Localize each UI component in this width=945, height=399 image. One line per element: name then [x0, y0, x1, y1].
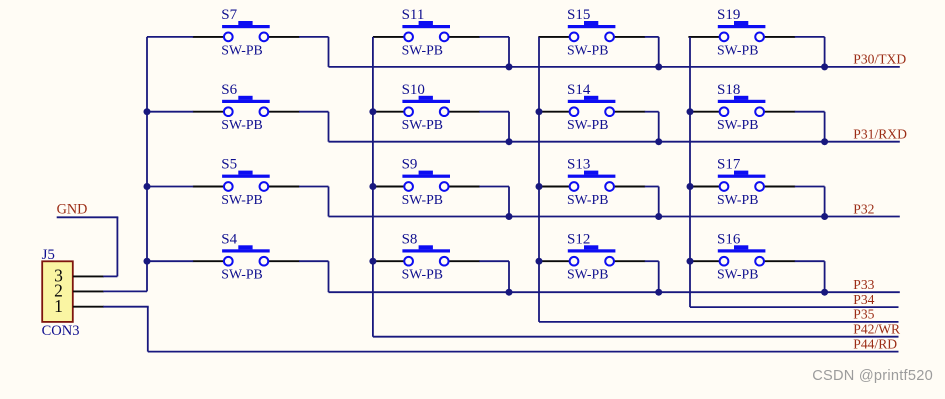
svg-text:S10: S10: [402, 82, 425, 98]
S5 actuator bar: [222, 175, 270, 178]
switch S9 (push button SW-PB): [373, 157, 480, 207]
wire S17 pin 2 to drop corner: [795, 186, 825, 188]
switch S7 (push button SW-PB): [193, 7, 300, 57]
S5 right contact: [260, 182, 269, 191]
S19 pin 2: [764, 36, 796, 38]
wire GND stub under label: [57, 216, 119, 218]
S12 pin 1: [538, 260, 570, 262]
S17 pin 1: [688, 186, 720, 188]
S11 pin 2: [448, 36, 480, 38]
svg-text:P32: P32: [853, 201, 874, 216]
switch S15 (push button SW-PB): [538, 7, 645, 57]
S5 left contact: [224, 182, 233, 191]
S12 left contact: [570, 257, 579, 266]
wire J5 pin 3 to GND corner: [103, 275, 117, 277]
svg-text:SW-PB: SW-PB: [717, 192, 758, 207]
wire S9 pin 2 to drop corner: [479, 186, 509, 188]
junction column 4 bus / row 2: [687, 108, 694, 115]
wire row 4 output net line (P33): [329, 291, 900, 293]
junction row 4 net line / S12 drop: [655, 289, 662, 296]
wire S17 drop down to row 3 net line: [824, 187, 826, 217]
switch S5 (push button SW-PB): [193, 157, 300, 207]
svg-text:CON3: CON3: [42, 323, 80, 339]
svg-text:S15: S15: [567, 7, 590, 23]
S14 right contact: [605, 107, 614, 116]
svg-text:S14: S14: [567, 82, 591, 98]
wire S8 pin 2 to drop corner: [479, 260, 509, 262]
wire S19 drop down to row 1 net line: [824, 37, 826, 67]
S9 pin 2: [448, 186, 480, 188]
wire row 4 from bus to S4 pin 1: [147, 260, 193, 262]
junction row 2 net line / S14 drop: [655, 138, 662, 145]
S5 pin 2: [268, 186, 300, 188]
svg-text:S16: S16: [717, 231, 741, 247]
junction row 3 net line / S13 drop: [655, 213, 662, 220]
wire S11 drop down to row 1 net line: [508, 37, 510, 67]
wire S7 pin 2 to drop corner: [299, 36, 329, 38]
S18 actuator bar: [718, 100, 766, 103]
wire column 1 vertical bus: [146, 37, 148, 292]
S19 actuator bar: [718, 25, 766, 28]
S6 right contact: [260, 107, 269, 116]
S13 actuator button: [584, 171, 598, 175]
wire S19 pin 2 to drop corner: [795, 36, 825, 38]
S15 left contact: [570, 33, 579, 42]
wire S8 drop down to row 4 net line: [508, 261, 510, 292]
S17 left contact: [720, 182, 729, 191]
S12 right contact: [605, 257, 614, 266]
svg-text:P34: P34: [853, 292, 874, 307]
S18 left contact: [720, 107, 729, 116]
svg-text:S8: S8: [402, 231, 418, 247]
S11 actuator bar: [402, 25, 450, 28]
S14 left contact: [570, 107, 579, 116]
S8 actuator bar: [402, 249, 450, 252]
S9 right contact: [440, 182, 449, 191]
svg-text:S17: S17: [717, 157, 741, 173]
switch S17 (push button SW-PB): [688, 157, 795, 207]
junction column 4 bus / row 3: [687, 183, 694, 190]
svg-text:P44/RD: P44/RD: [853, 336, 897, 351]
S6 actuator button: [238, 96, 252, 100]
wire row 3 from bus to S5 pin 1: [147, 186, 193, 188]
svg-text:SW-PB: SW-PB: [567, 192, 608, 207]
svg-text:CSDN @printf520: CSDN @printf520: [812, 368, 933, 384]
junction row 4 net line / S16 drop: [821, 289, 828, 296]
svg-text:SW-PB: SW-PB: [402, 117, 443, 132]
wire J5 pin 1 to drop corner: [103, 306, 149, 308]
S9 actuator button: [419, 171, 433, 175]
wire S12 drop down to row 4 net line: [658, 261, 660, 292]
S15 pin 2: [614, 36, 646, 38]
switch S16 (push button SW-PB): [688, 231, 795, 281]
junction row 1 net line / S19 drop: [821, 63, 828, 70]
S4 pin 1: [193, 260, 225, 262]
wire row 3 output net line (P32): [329, 216, 900, 218]
svg-text:SW-PB: SW-PB: [221, 267, 262, 282]
S13 pin 1: [538, 186, 570, 188]
wire S18 pin 2 to drop corner: [795, 111, 825, 113]
wire S4 pin 2 to drop corner: [299, 260, 329, 262]
S10 pin 2: [448, 111, 480, 113]
svg-text:S9: S9: [402, 157, 418, 173]
S10 actuator bar: [402, 100, 450, 103]
junction row 3 net line / S9 drop: [506, 213, 513, 220]
wire GND vertical: [116, 217, 118, 276]
svg-text:SW-PB: SW-PB: [221, 42, 262, 57]
S11 right contact: [440, 33, 449, 42]
S4 left contact: [224, 257, 233, 266]
switch S13 (push button SW-PB): [538, 157, 645, 207]
S15 right contact: [605, 33, 614, 42]
S18 right contact: [755, 107, 764, 116]
S17 actuator bar: [718, 175, 766, 178]
svg-text:GND: GND: [57, 201, 88, 217]
S4 actuator bar: [222, 249, 270, 252]
svg-text:P42/WR: P42/WR: [853, 322, 901, 337]
S19 left contact: [720, 33, 729, 42]
switch S18 (push button SW-PB): [688, 82, 795, 132]
svg-text:J5: J5: [42, 247, 55, 263]
svg-text:P33: P33: [853, 277, 874, 292]
junction column 1 bus / row 2: [144, 108, 151, 115]
junction row 4 net line / S8 drop: [506, 289, 513, 296]
S12 pin 2: [614, 260, 646, 262]
junction column 3 bus / row 4: [536, 258, 543, 265]
junction row 3 net line / S17 drop: [821, 213, 828, 220]
S15 pin 1: [538, 36, 570, 38]
S16 right contact: [755, 257, 764, 266]
svg-text:S13: S13: [567, 157, 590, 173]
J5 body: [42, 261, 73, 322]
J5 pin 3: [73, 275, 104, 277]
S13 pin 2: [614, 186, 646, 188]
wire column 3 bus to P35 net line: [539, 321, 899, 323]
wire column 4 bus to P34 net line: [690, 306, 899, 308]
S13 right contact: [605, 182, 614, 191]
S14 pin 1: [538, 111, 570, 113]
S9 pin 1: [373, 186, 405, 188]
svg-text:S4: S4: [221, 231, 237, 247]
wire row 1 output net line (P30/TXD): [329, 66, 900, 68]
wire S10 drop down to row 2 net line: [508, 112, 510, 142]
junction column 2 bus / row 4: [369, 258, 376, 265]
svg-text:SW-PB: SW-PB: [717, 267, 758, 282]
wire S16 drop down to row 4 net line: [824, 261, 826, 292]
S19 right contact: [755, 33, 764, 42]
S19 pin 1: [688, 36, 720, 38]
junction column 2 bus / row 2: [369, 108, 376, 115]
J5 pin 2: [73, 290, 104, 292]
connector J5 (CON3): [42, 247, 104, 339]
S9 actuator bar: [402, 175, 450, 178]
switch S12 (push button SW-PB): [538, 231, 645, 281]
wire S5 drop down to row 3 net line: [328, 187, 330, 217]
S18 pin 2: [764, 111, 796, 113]
S17 right contact: [755, 182, 764, 191]
S18 actuator button: [734, 96, 748, 100]
switch S10 (push button SW-PB): [373, 82, 480, 132]
wire S9 drop down to row 3 net line: [508, 187, 510, 217]
junction column 1 bus / row 4: [144, 258, 151, 265]
switch S14 (push button SW-PB): [538, 82, 645, 132]
S17 actuator button: [734, 171, 748, 175]
S16 left contact: [720, 257, 729, 266]
svg-text:SW-PB: SW-PB: [402, 192, 443, 207]
switch S19 (push button SW-PB): [688, 7, 795, 57]
wire S13 pin 2 to drop corner: [645, 186, 659, 188]
S7 right contact: [260, 33, 269, 42]
S6 actuator bar: [222, 100, 270, 103]
svg-text:1: 1: [54, 296, 63, 316]
svg-text:S6: S6: [221, 82, 237, 98]
S8 right contact: [440, 257, 449, 266]
S19 actuator button: [734, 21, 748, 25]
S10 actuator button: [419, 96, 433, 100]
S7 actuator button: [238, 21, 252, 25]
wire row 1 from bus to S7 pin 1: [147, 36, 193, 38]
S10 left contact: [404, 107, 413, 116]
S17 pin 2: [764, 186, 796, 188]
wire column 3 vertical bus: [538, 37, 540, 322]
switch S8 (push button SW-PB): [373, 231, 480, 281]
wire S15 pin 2 to drop corner: [645, 36, 659, 38]
S6 pin 2: [268, 111, 300, 113]
junction row 2 net line / S10 drop: [506, 138, 513, 145]
S12 actuator bar: [568, 249, 616, 252]
wire S5 pin 2 to drop corner: [299, 186, 329, 188]
svg-text:P31/RXD: P31/RXD: [853, 127, 907, 142]
wire row 2 output net line (P31/RXD): [329, 141, 900, 143]
junction column 3 bus / row 3: [536, 183, 543, 190]
S4 pin 2: [268, 260, 300, 262]
svg-text:SW-PB: SW-PB: [402, 42, 443, 57]
junction column 4 bus / row 4: [687, 258, 694, 265]
junction column 2 bus / row 3: [369, 183, 376, 190]
svg-text:P35: P35: [853, 307, 874, 322]
wire S6 drop down to row 2 net line: [328, 112, 330, 142]
S14 pin 2: [614, 111, 646, 113]
svg-text:S5: S5: [221, 157, 237, 173]
S16 pin 2: [764, 260, 796, 262]
switch S6 (push button SW-PB): [193, 82, 300, 132]
wire J5 pin 2 to column 1 bus: [103, 290, 147, 292]
S13 left contact: [570, 182, 579, 191]
wire S18 drop down to row 2 net line: [824, 112, 826, 142]
svg-text:S12: S12: [567, 231, 590, 247]
svg-text:SW-PB: SW-PB: [221, 192, 262, 207]
S15 actuator bar: [568, 25, 616, 28]
S5 pin 1: [193, 186, 225, 188]
S16 actuator bar: [718, 249, 766, 252]
S9 left contact: [404, 182, 413, 191]
S8 left contact: [404, 257, 413, 266]
svg-text:S18: S18: [717, 82, 740, 98]
svg-text:P30/TXD: P30/TXD: [853, 52, 906, 67]
S8 pin 2: [448, 260, 480, 262]
S7 actuator bar: [222, 25, 270, 28]
J5 pin 1: [73, 306, 104, 308]
svg-text:S7: S7: [221, 7, 237, 23]
wire S10 pin 2 to drop corner: [479, 111, 509, 113]
S5 actuator button: [238, 171, 252, 175]
svg-text:S11: S11: [402, 7, 425, 23]
wire S14 drop down to row 2 net line: [658, 112, 660, 142]
S4 right contact: [260, 257, 269, 266]
wire S6 pin 2 to drop corner: [299, 111, 329, 113]
wire S11 pin 2 to drop corner: [479, 36, 509, 38]
S8 pin 1: [373, 260, 405, 262]
S7 left contact: [224, 33, 233, 42]
wire S16 pin 2 to drop corner: [795, 260, 825, 262]
S10 right contact: [440, 107, 449, 116]
S14 actuator button: [584, 96, 598, 100]
svg-text:SW-PB: SW-PB: [567, 117, 608, 132]
wire connector pin 1 drop down to P44/RD line: [147, 307, 149, 352]
S18 pin 1: [688, 111, 720, 113]
S15 actuator button: [584, 21, 598, 25]
S14 actuator bar: [568, 100, 616, 103]
S12 actuator button: [584, 245, 598, 249]
S11 pin 1: [373, 36, 405, 38]
svg-text:SW-PB: SW-PB: [567, 267, 608, 282]
S10 pin 1: [373, 111, 405, 113]
S11 left contact: [404, 33, 413, 42]
S16 pin 1: [688, 260, 720, 262]
svg-text:S19: S19: [717, 7, 740, 23]
svg-text:SW-PB: SW-PB: [402, 267, 443, 282]
svg-text:SW-PB: SW-PB: [717, 42, 758, 57]
wire row 2 from bus to S6 pin 1: [147, 111, 193, 113]
junction column 3 bus / row 2: [536, 108, 543, 115]
wire S13 drop down to row 3 net line: [658, 187, 660, 217]
wire S12 pin 2 to drop corner: [645, 260, 659, 262]
junction row 1 net line / S15 drop: [655, 63, 662, 70]
junction row 2 net line / S18 drop: [821, 138, 828, 145]
wire S4 drop down to row 4 net line: [328, 261, 330, 292]
junction column 1 bus / row 3: [144, 183, 151, 190]
S13 actuator bar: [568, 175, 616, 178]
wire S15 drop down to row 1 net line: [658, 37, 660, 67]
S6 pin 1: [193, 111, 225, 113]
svg-text:SW-PB: SW-PB: [717, 117, 758, 132]
junction row 1 net line / S11 drop: [506, 63, 513, 70]
switch S4 (push button SW-PB): [193, 231, 300, 281]
wire P44/RD net line from connector pin 1: [148, 351, 899, 353]
wire S7 drop down to row 1 net line: [328, 37, 330, 67]
S8 actuator button: [419, 245, 433, 249]
wire column 4 vertical bus: [689, 37, 691, 307]
wire column 2 vertical bus: [372, 37, 374, 337]
svg-text:SW-PB: SW-PB: [221, 117, 262, 132]
svg-text:SW-PB: SW-PB: [567, 42, 608, 57]
S7 pin 2: [268, 36, 300, 38]
S6 left contact: [224, 107, 233, 116]
switch S11 (push button SW-PB): [373, 7, 480, 57]
wire column 2 bus to P42/WR net line: [373, 336, 899, 338]
S16 actuator button: [734, 245, 748, 249]
S11 actuator button: [419, 21, 433, 25]
wire S14 pin 2 to drop corner: [645, 111, 659, 113]
S4 actuator button: [238, 245, 252, 249]
S7 pin 1: [193, 36, 225, 38]
